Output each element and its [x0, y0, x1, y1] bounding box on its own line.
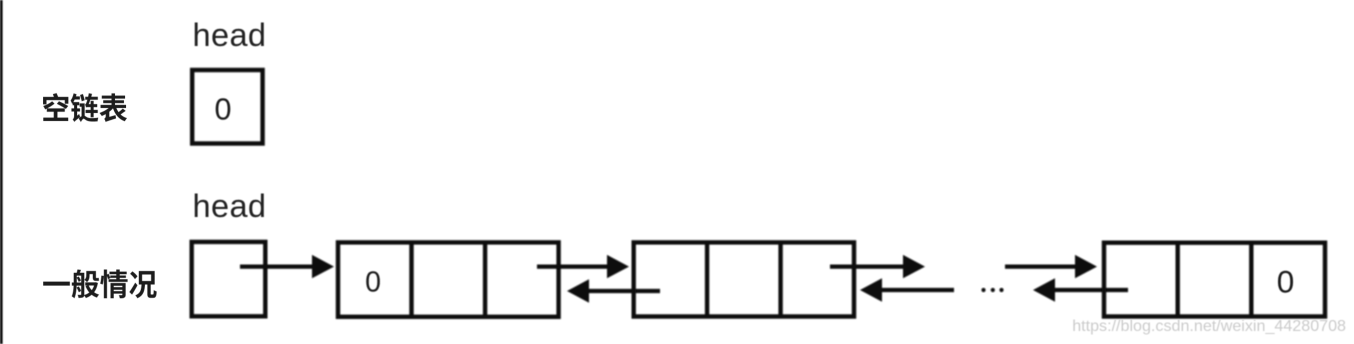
svg-text:0: 0	[215, 93, 232, 127]
arrow ellipsis to node2 (prev)	[860, 278, 954, 301]
box head node (empty list)	[192, 70, 262, 144]
label 一般情况 (general case)	[43, 269, 157, 298]
node3 (3 cells, tail)	[1104, 243, 1325, 317]
svg-text:0: 0	[365, 267, 381, 299]
svg-text:head: head	[193, 188, 267, 224]
ellipsis dots	[981, 288, 1003, 292]
arrow node3 to ellipsis (prev)	[1033, 278, 1128, 301]
box head node (general case)	[192, 242, 266, 316]
arrow ellipsis to node3 (next)	[1005, 255, 1097, 278]
arrow node2 to node1 (prev)	[567, 279, 660, 302]
node1 (3 cells)	[338, 242, 559, 316]
arrow node2 to ellipsis (next)	[830, 255, 925, 278]
arrow node1 to node2 (next)	[537, 255, 629, 278]
label 空链表 (empty list)	[43, 93, 127, 122]
arrow head to node1 (next pointer)	[240, 255, 334, 278]
svg-text:https://blog.csdn.net/weixin_4: https://blog.csdn.net/weixin_44280708	[1072, 317, 1346, 335]
node2 (3 cells)	[634, 242, 854, 316]
left border line	[0, 0, 3, 344]
svg-text:0: 0	[1277, 264, 1295, 300]
svg-text:head: head	[193, 17, 267, 53]
